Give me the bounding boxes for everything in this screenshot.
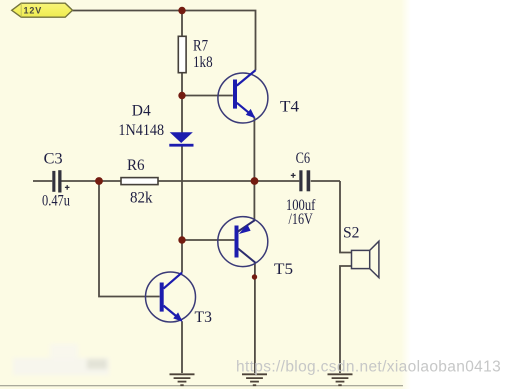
svg-text:1N4148: 1N4148	[118, 122, 164, 139]
svg-text:C3: C3	[44, 151, 63, 168]
svg-text:R6: R6	[127, 157, 145, 174]
svg-text:T5: T5	[274, 261, 293, 278]
svg-text:0.47u: 0.47u	[42, 193, 70, 210]
svg-text:82k: 82k	[130, 190, 153, 207]
svg-text:S2: S2	[343, 225, 360, 242]
svg-text:/16V: /16V	[289, 211, 314, 228]
svg-text:D4: D4	[132, 103, 151, 120]
svg-text:1k8: 1k8	[193, 54, 213, 71]
svg-text:T4: T4	[280, 99, 299, 116]
svg-text:https://blog.csdn.net/xiaolaob: https://blog.csdn.net/xiaolaoban0413	[236, 359, 501, 376]
svg-text:12V: 12V	[24, 5, 43, 15]
svg-text:R7: R7	[193, 38, 208, 55]
svg-text:T3: T3	[195, 309, 212, 326]
svg-text:C6: C6	[296, 150, 311, 167]
